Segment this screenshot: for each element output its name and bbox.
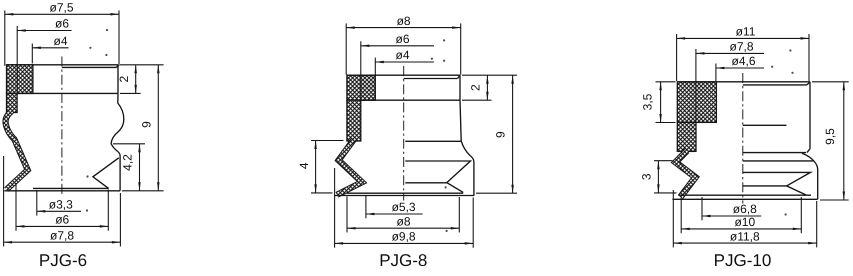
svg-text:ø10: ø10	[734, 215, 755, 229]
svg-text:ø8: ø8	[397, 14, 411, 28]
extension line	[656, 122, 676, 124]
extension line	[36, 190, 38, 216]
centerline PJG-6	[61, 57, 63, 197]
extension line	[715, 64, 717, 82]
svg-text:9,5: 9,5	[823, 128, 837, 145]
extension line	[701, 197, 703, 220]
svg-text:ø8: ø8	[396, 214, 410, 228]
extension line	[3, 156, 5, 247]
lip underside line PJG-8	[347, 192, 464, 194]
dimension Ø4.6 PJG-10	[716, 54, 764, 69]
dimension 4 PJG-8	[297, 141, 317, 193]
cavity step line PJG-10	[743, 124, 787, 126]
dimension 9 (overall height) PJG-8	[493, 75, 514, 193]
extension line	[654, 160, 673, 162]
extension line	[120, 64, 164, 66]
svg-text:ø4,6: ø4,6	[731, 54, 755, 68]
extension line	[462, 74, 517, 76]
svg-text:9: 9	[493, 131, 507, 138]
bellows fold circle line PJG-10	[743, 160, 814, 162]
extension line	[808, 34, 810, 81]
extension line	[360, 41, 362, 100]
extension line	[122, 190, 164, 192]
lip inner cone lines PJG-8	[405, 161, 470, 192]
cup outline PJG-8 top flange	[347, 75, 460, 100]
svg-text:ø7,8: ø7,8	[729, 40, 753, 54]
extension line	[676, 34, 678, 81]
extension line	[476, 192, 517, 194]
lip underside line PJG-10	[678, 194, 811, 196]
svg-text:4,2: 4,2	[121, 154, 135, 171]
hatched flange section PJG-8 (left wall, OD 8 to bore 4)	[347, 75, 375, 100]
extension line	[800, 197, 802, 233]
dimension Ø6.8 PJG-10	[702, 202, 761, 217]
dimension Ø4 PJG-6	[32, 34, 68, 49]
dimension 4.2 PJG-6	[121, 144, 141, 191]
svg-text:ø7,5: ø7,5	[49, 1, 73, 15]
specks	[789, 49, 791, 51]
dimension Ø10 PJG-10	[681, 215, 801, 230]
dimension Ø9.8 PJG-8	[335, 230, 474, 245]
extension line	[458, 197, 460, 233]
svg-text:PJG-8: PJG-8	[379, 251, 427, 270]
extension line	[113, 143, 145, 145]
extension line	[672, 190, 674, 247]
extension line	[15, 183, 17, 231]
extension line	[120, 92, 141, 94]
dimension Ø6 top PJG-8	[361, 32, 434, 47]
hatched flange section PJG-10 (left wall, OD 11 to bore 4.6)	[677, 82, 716, 123]
dimension Ø8 PJG-8	[346, 14, 461, 29]
bottom face line PJG-8	[335, 195, 474, 197]
dimension Ø4 PJG-8	[375, 48, 434, 63]
extension line	[4, 10, 6, 65]
cup outline PJG-8 right profile (bellows silhouette)	[460, 100, 474, 195]
dimension Ø5.3 PJG-8	[366, 200, 423, 215]
lip underside line PJG-6	[33, 187, 109, 189]
hatched flange section PJG-6 (left wall, OD 7.5 to bore 4)	[7, 65, 33, 94]
svg-text:2: 2	[469, 84, 483, 91]
svg-text:2: 2	[117, 75, 131, 82]
extension line	[345, 23, 347, 74]
dimension Ø7.8 top PJG-10	[696, 40, 764, 55]
svg-text:ø6,8: ø6,8	[733, 202, 757, 216]
dimension 2 (flange height) PJG-6	[117, 65, 137, 94]
svg-text:ø6: ø6	[395, 32, 409, 46]
bottom face line PJG-10	[672, 198, 817, 200]
svg-text:PJG-10: PJG-10	[714, 251, 772, 270]
extension line	[472, 198, 474, 248]
extension line	[460, 23, 462, 74]
bottom face line PJG-6	[4, 190, 120, 192]
extension line	[334, 168, 336, 248]
extension line	[31, 44, 33, 64]
extension line	[119, 193, 121, 247]
dimension 9 (overall height) PJG-6	[139, 65, 159, 191]
extension line	[365, 196, 367, 218]
svg-text:ø6: ø6	[55, 213, 69, 227]
specks	[106, 29, 108, 31]
extension line	[656, 81, 676, 83]
extension line	[16, 26, 18, 93]
centerline PJG-8	[403, 66, 405, 201]
dimension Ø7.5 PJG-6	[5, 1, 119, 16]
svg-text:PJG-6: PJG-6	[39, 251, 87, 270]
svg-text:ø5,3: ø5,3	[392, 200, 416, 214]
cup outline PJG-10 top flange	[677, 82, 810, 153]
dimension Ø3.3 PJG-6	[37, 198, 81, 213]
dimension Ø6 bottom PJG-6	[16, 213, 108, 228]
extension line	[311, 140, 344, 142]
hatched neck wall section PJG-10	[677, 122, 696, 151]
extension line	[118, 10, 120, 65]
bellows fold circle lines PJG-8	[405, 140, 461, 142]
hatched neck wall section PJG-8	[347, 100, 361, 141]
svg-text:ø3,3: ø3,3	[49, 198, 73, 212]
extension line	[680, 198, 682, 234]
svg-text:ø11,8: ø11,8	[730, 229, 760, 243]
svg-text:ø4: ø4	[395, 48, 409, 62]
extension line	[107, 190, 109, 231]
extension line	[820, 199, 849, 201]
dimension Ø11.8 PJG-10	[673, 229, 816, 244]
specks	[443, 39, 445, 41]
hatched bellows lip section PJG-8	[337, 140, 362, 195]
extension line	[654, 192, 677, 194]
extension line	[816, 201, 818, 247]
lip inner cone lines PJG-6	[93, 158, 119, 189]
extension line	[695, 49, 697, 122]
dimension Ø7.8 PJG-6	[4, 228, 121, 243]
svg-text:3: 3	[640, 173, 654, 180]
dimension 3 PJG-10	[640, 161, 660, 193]
svg-text:9: 9	[139, 121, 153, 128]
cup outline PJG-10 right profile (bellows silhouette)	[802, 153, 818, 199]
dimension Ø11 PJG-10	[677, 25, 809, 40]
centerline PJG-10	[742, 73, 744, 204]
svg-text:ø9,8: ø9,8	[392, 230, 416, 244]
dimension Ø6 top PJG-6	[17, 17, 71, 32]
svg-text:ø6: ø6	[55, 17, 69, 31]
extension line	[374, 58, 376, 75]
svg-text:ø4: ø4	[53, 34, 67, 48]
extension line	[311, 192, 333, 194]
extension line	[812, 81, 849, 83]
dimension 9.5 PJG-10	[823, 82, 845, 200]
extension line	[346, 197, 348, 233]
svg-text:ø11: ø11	[736, 25, 756, 39]
dimension 2 (flange height) PJG-8	[469, 75, 489, 100]
svg-text:ø7,8: ø7,8	[50, 228, 74, 242]
hatched neck wall section PJG-6	[7, 93, 18, 112]
hatched bellows lip section PJG-6	[6, 111, 28, 190]
svg-text:4: 4	[297, 162, 311, 169]
hatched bellows lip section PJG-10	[676, 151, 696, 197]
dimension Ø8 bottom PJG-8	[347, 214, 459, 229]
cup outline PJG-6 right profile (bellows silhouette)	[111, 93, 124, 190]
lip inner cone lines PJG-10	[743, 185, 787, 187]
svg-text:3,5: 3,5	[641, 93, 655, 110]
cup outline PJG-6 top flange	[7, 65, 119, 94]
extension line	[462, 99, 492, 101]
dimension 3.5 PJG-10	[641, 82, 662, 123]
